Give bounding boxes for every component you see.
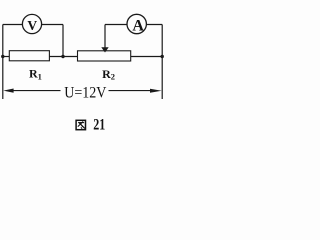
dimension line left segment — [12, 90, 61, 92]
dimension arrow right — [150, 89, 162, 93]
wire slider vertical — [104, 25, 106, 49]
svg-text:A: A — [132, 18, 144, 35]
wire right vertical (supply terminal right) — [161, 25, 163, 100]
node middle junction dot — [61, 55, 64, 58]
caption glyph tu (drawn CJK) — [76, 120, 85, 129]
wire mid vertical (voltmeter to main line) — [62, 25, 64, 57]
resistor R2 box (rheostat) — [78, 51, 131, 61]
wire voltmeter right lead — [42, 24, 63, 26]
node right junction dot — [161, 55, 164, 58]
svg-text:U=12V: U=12V — [64, 84, 107, 101]
wire main line left segment — [3, 56, 10, 58]
rheostat slider arrowhead — [101, 47, 108, 52]
resistor R1 box — [9, 51, 49, 61]
svg-text:21: 21 — [93, 116, 105, 133]
wire ammeter left lead — [105, 24, 127, 26]
dimension arrow left — [3, 89, 13, 93]
wire left vertical (supply terminal left) — [2, 25, 4, 100]
dimension line right segment — [109, 90, 153, 92]
node left junction dot — [1, 55, 4, 58]
voltmeter V — [22, 14, 41, 33]
wire main line right segment — [131, 56, 163, 58]
wire main line middle segment — [49, 56, 77, 58]
wire ammeter right lead — [146, 24, 162, 26]
wire voltmeter left lead — [3, 24, 23, 26]
ammeter A — [127, 14, 146, 34]
svg-text:V: V — [27, 18, 37, 33]
